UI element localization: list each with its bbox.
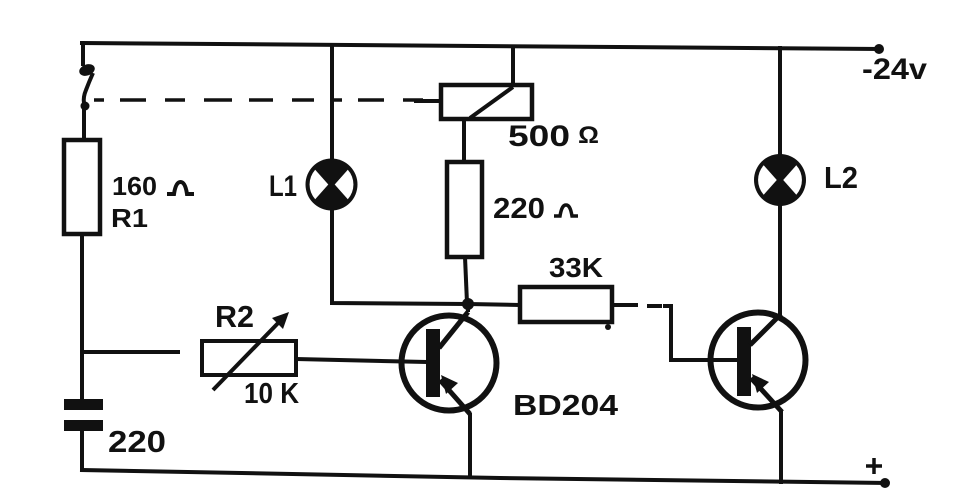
transistor Q1 BD204: [402, 312, 497, 414]
svg-text:Ω: Ω: [578, 122, 599, 149]
dashed mechanical link line: [94, 98, 438, 102]
node top-right terminal: [874, 44, 884, 54]
wire node A to 33K: [468, 304, 520, 305]
resistor 220 ohm: [447, 162, 482, 257]
resistor 33K: [520, 287, 612, 322]
wire Q1 collector to node A: [466, 303, 470, 312]
relay K1 coil 500 ohm: [441, 85, 532, 119]
svg-text:160: 160: [112, 171, 157, 201]
label + terminal: [866, 458, 882, 474]
svg-text:10 K: 10 K: [244, 378, 299, 410]
lamp L1: [306, 159, 358, 211]
svg-text:33K: 33K: [549, 252, 603, 283]
svg-text:L1: L1: [269, 170, 297, 203]
wire 33K to Q2 base (with dash): [612, 305, 739, 360]
svg-text:220: 220: [493, 193, 545, 225]
svg-text:R1: R1: [111, 203, 148, 233]
wire L1 down and across to node A: [332, 209, 468, 304]
capacitor C1 220: [64, 399, 103, 431]
wire L2 down to Q2 collector: [778, 205, 782, 315]
node bottom-right terminal: [880, 478, 890, 488]
potentiometer R2 10K: [202, 312, 296, 390]
svg-text:L2: L2: [824, 160, 858, 195]
svg-text:R2: R2: [215, 299, 254, 334]
wire node to R2 (with scan gap): [82, 350, 180, 354]
svg-text:500: 500: [508, 120, 570, 153]
lamp L2: [754, 154, 806, 206]
stray dot mark: [605, 324, 611, 330]
wire R2 to Q1 base: [296, 359, 427, 362]
wire rail down to L1: [330, 44, 334, 160]
svg-text:BD204: BD204: [513, 390, 618, 422]
wire dashed-link stub to relay: [414, 99, 441, 103]
wire rail down to relay K1: [511, 46, 515, 85]
wire Q1 emitter to bottom rail: [468, 413, 472, 478]
transistor Q2: [711, 313, 806, 413]
wire relay to 220 ohm resistor: [462, 119, 466, 162]
wire rail down to L2: [778, 46, 782, 155]
wire Q2 emitter to bottom rail: [779, 411, 783, 484]
resistor R1 160 ohm: [64, 140, 100, 234]
svg-text:220: 220: [108, 424, 166, 459]
wire capacitor to bottom rail: [80, 429, 84, 471]
switch S1: [78, 62, 97, 110]
wire top supply rail: [82, 43, 880, 49]
wire R1 bottom down to node and capacitor: [80, 234, 84, 400]
wire bottom rail: [82, 470, 886, 483]
wire from rail down to switch S1: [81, 43, 85, 66]
svg-text:-24v: -24v: [862, 53, 927, 86]
node A junction dot: [462, 298, 474, 310]
wire 220 ohm to node A: [465, 257, 467, 303]
wire switch to R1: [82, 106, 86, 140]
